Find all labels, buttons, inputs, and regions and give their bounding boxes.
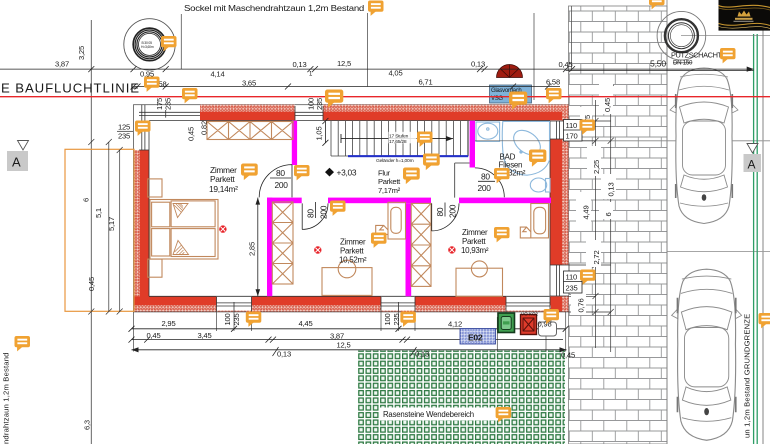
svg-text:3,45: 3,45: [198, 331, 212, 340]
door Zimmer2: [302, 203, 328, 229]
svg-text:235: 235: [315, 98, 324, 110]
svg-text:12,5: 12,5: [337, 59, 351, 68]
svg-text:125: 125: [118, 123, 130, 132]
dim 2,85 Zimmer1: [248, 198, 261, 297]
svg-text:ndrahtzaun 1,2m Bestand: ndrahtzaun 1,2m Bestand: [2, 352, 11, 444]
magenta wall Flur/Zimmer1 upper: [292, 121, 297, 165]
svg-text:A: A: [12, 155, 21, 170]
right wall window top (110/170): [550, 121, 569, 139]
right wall hatch band: [562, 105, 569, 121]
blue hatched box E02: [460, 329, 496, 345]
white patches behind right labels: [571, 83, 616, 315]
window tag 110/235: [564, 271, 583, 293]
desk + chair Zimmer3: [456, 261, 503, 296]
svg-text:80: 80: [276, 168, 285, 178]
svg-text:6,3: 6,3: [83, 420, 92, 430]
svg-text:235: 235: [566, 284, 578, 293]
bottom wall red band: [134, 296, 217, 305]
svg-text:200: 200: [448, 204, 458, 218]
svg-text:DN 150: DN 150: [673, 60, 693, 67]
svg-text:10,52m²: 10,52m²: [339, 255, 367, 264]
svg-text:80: 80: [481, 171, 490, 181]
handrail label: [375, 157, 419, 163]
top window entrance (wall opening): [295, 106, 323, 120]
red awning fan: [497, 65, 523, 78]
door Zimmer1: [259, 165, 292, 198]
svg-text:0,45: 0,45: [561, 351, 575, 360]
extension lines: [134, 312, 566, 352]
door BAD: [475, 168, 504, 197]
svg-text:0,45: 0,45: [559, 60, 573, 69]
svg-text:170: 170: [566, 132, 578, 141]
door label Zimmer1: [270, 168, 291, 190]
leader lines from notes: [180, 14, 182, 69]
svg-text:1,05: 1,05: [315, 127, 324, 141]
svg-text:200: 200: [478, 183, 492, 193]
glass canopy Glasvordach VSG: [490, 85, 532, 103]
bed blanket folds (hatched triangles): [173, 204, 189, 255]
svg-text:0,76: 0,76: [577, 299, 586, 313]
svg-text:Zimmer: Zimmer: [340, 237, 366, 246]
svg-text:Rasensteine Wendebereich: Rasensteine Wendebereich: [383, 410, 474, 419]
svg-text:0,13: 0,13: [293, 60, 307, 69]
right wall red band: [550, 139, 562, 265]
boundary grey line: [762, 0, 764, 444]
svg-text:4,45: 4,45: [299, 319, 313, 328]
left wall window: [139, 105, 149, 150]
boundary green double line: [753, 34, 755, 444]
small white shaft box: [539, 322, 557, 336]
brick paved area right: [569, 6, 668, 444]
survey circle PUTZSCHACHT: [657, 11, 706, 60]
svg-text:Parkett: Parkett: [340, 246, 364, 255]
stair walk line with arrow: [341, 134, 453, 143]
svg-text:0,13: 0,13: [607, 183, 616, 197]
top wall red band: [200, 112, 295, 121]
svg-text:5,1: 5,1: [94, 208, 103, 218]
svg-text:110: 110: [566, 121, 578, 130]
svg-text:+3,03: +3,03: [337, 167, 357, 177]
svg-text:4,49: 4,49: [582, 206, 591, 220]
svg-text:4,12: 4,12: [448, 320, 462, 329]
svg-text:6,58: 6,58: [546, 78, 560, 87]
washbasin counter: [476, 122, 500, 141]
svg-text:100: 100: [383, 313, 392, 325]
svg-text:Zimmer: Zimmer: [462, 228, 488, 237]
putzschacht leader line: [681, 35, 770, 37]
svg-text:4,05: 4,05: [389, 69, 403, 78]
car 2 (bottom parking spot): [672, 269, 742, 440]
double bed Zimmer1: [148, 179, 218, 277]
svg-text:110: 110: [566, 273, 578, 282]
svg-text:Parkett: Parkett: [210, 174, 235, 184]
horizontal site line at bath level: [550, 140, 770, 142]
level marker +3,03: [325, 168, 334, 177]
magenta wall Zimmer1/Zimmer2 lower: [267, 198, 272, 297]
dim row 2: [129, 337, 564, 343]
bottom window 3: [506, 297, 550, 312]
stair treads: [331, 121, 468, 156]
room label Zimmer 1: [209, 165, 238, 194]
bottom window 2: [381, 297, 415, 312]
svg-text:0,45: 0,45: [87, 277, 96, 291]
corner bathtub: [502, 122, 549, 176]
svg-text:80: 80: [306, 209, 316, 218]
rotated window tags top: [155, 98, 324, 141]
svg-text:3,87: 3,87: [330, 332, 344, 341]
svg-text:0,45: 0,45: [147, 331, 161, 340]
svg-text:235: 235: [164, 98, 173, 110]
svg-text:6: 6: [604, 212, 613, 216]
svg-text:5,50: 5,50: [650, 59, 666, 69]
svg-text:12,5: 12,5: [337, 341, 351, 350]
svg-text:3,87: 3,87: [55, 60, 69, 69]
room label BAD: [499, 152, 526, 177]
dim row B: [131, 84, 561, 90]
door label Zimmer2 (rotated): [306, 202, 329, 219]
room label Flur: [378, 169, 401, 195]
svg-text:10,93m²: 10,93m²: [461, 246, 489, 255]
svg-text:2,95: 2,95: [162, 319, 176, 328]
svg-text:6,71: 6,71: [419, 78, 433, 87]
svg-text:4,14: 4,14: [211, 70, 225, 79]
door label BAD: [478, 171, 496, 193]
left boundary vertical line: [90, 20, 92, 444]
site line across bath: [475, 140, 550, 142]
svg-text:100: 100: [223, 313, 232, 325]
svg-text:200: 200: [319, 205, 329, 219]
svg-text:200: 200: [275, 180, 289, 190]
svg-text:2,72: 2,72: [592, 251, 601, 265]
svg-text:17,65/28: 17,65/28: [389, 139, 407, 145]
right rotated labels: [577, 115, 616, 313]
right wall window bottom (110/235): [550, 265, 569, 296]
svg-text:7,17m²: 7,17m²: [378, 186, 401, 195]
red shaft box: [521, 315, 537, 335]
svg-text:235: 235: [118, 132, 130, 141]
dim row 1: [129, 326, 569, 332]
green shaft box: [498, 313, 515, 333]
svg-text:19,14m²: 19,14m²: [209, 184, 238, 194]
car 1 (top parking spot): [670, 68, 738, 224]
svg-text:0,45: 0,45: [187, 127, 196, 141]
section marker A right: [744, 144, 762, 173]
svg-text:0,82: 0,82: [200, 121, 209, 135]
room label Zimmer 3: [461, 228, 489, 255]
bottom wall hatch band: [134, 305, 552, 312]
left wall red band: [140, 150, 149, 312]
bed Zimmer2 (vertical): [376, 202, 406, 239]
svg-text:235: 235: [392, 313, 401, 325]
svg-text:80: 80: [435, 207, 445, 216]
svg-text:0,13: 0,13: [471, 60, 485, 69]
rotated left dims: [77, 46, 116, 430]
svg-text:H=3,60m: H=3,60m: [141, 45, 154, 49]
svg-text:3,65: 3,65: [242, 79, 256, 88]
building outer outline: [134, 105, 569, 312]
ceiling lamp dots: [219, 225, 455, 253]
svg-text:A: A: [748, 158, 756, 172]
survey tree circle top-left: [124, 19, 175, 70]
svg-text:E02: E02: [468, 333, 483, 343]
row B labels: [159, 78, 560, 89]
svg-text:PUTZSCHACHT: PUTZSCHACHT: [671, 51, 723, 60]
svg-text:6: 6: [82, 198, 91, 202]
magenta wall BAD left: [470, 121, 475, 168]
wardrobe Zimmer2: [272, 202, 293, 284]
lawn area label: [380, 408, 498, 421]
wardrobe top Zimmer1: [207, 122, 293, 140]
bottom window 1: [217, 297, 252, 312]
section marker A left: [7, 141, 29, 172]
door Zimmer3: [432, 203, 460, 231]
bed Zimmer3 (vertical): [520, 204, 548, 238]
window tag 110/170: [564, 120, 583, 142]
inner wall edge lines: [149, 121, 550, 297]
left wall hatch band: [134, 150, 141, 312]
door label Zimmer3 (rotated): [435, 203, 458, 219]
svg-text:58: 58: [159, 80, 167, 89]
parking spot divider: [667, 251, 770, 253]
svg-text:5,17: 5,17: [107, 217, 116, 231]
svg-text:VO KO2: VO KO2: [521, 311, 539, 316]
dim row A: [0, 66, 754, 72]
left dim lines: [88, 139, 122, 315]
magenta corridor wall horizontal: [267, 198, 302, 204]
svg-text:Parkett: Parkett: [462, 237, 486, 246]
svg-text:0,13: 0,13: [415, 350, 429, 359]
svg-text:Sockel mit Maschendrahtzaun 1,: Sockel mit Maschendrahtzaun 1,2m Bestand: [184, 3, 365, 13]
svg-text:0,45: 0,45: [603, 98, 612, 112]
dim line putzschacht row: [566, 70, 754, 72]
desk + chair Zimmer2: [322, 260, 372, 295]
svg-text:un 1,2m Bestand GRUNDGRENZE: un 1,2m Bestand GRUNDGRENZE: [743, 314, 752, 438]
old building outline (orange): [65, 149, 134, 311]
wardrobe Zimmer3: [411, 203, 431, 286]
stair label: [389, 132, 417, 144]
row A labels: [55, 59, 572, 79]
svg-text:2,25: 2,25: [592, 160, 601, 174]
magenta wall Zimmer2/Zimmer3: [406, 203, 412, 296]
svg-text:235: 235: [232, 313, 241, 325]
handrail (blue): [348, 155, 468, 157]
dim 1,05 at stair: [315, 118, 329, 146]
dim row 3: [132, 347, 567, 356]
toilet: [530, 178, 546, 192]
svg-text:2,85: 2,85: [248, 242, 257, 256]
window tag left 125/235: [117, 123, 133, 141]
svg-text:3,25: 3,25: [77, 46, 86, 60]
svg-text:E BAUFLUCHTLINIE: E BAUFLUCHTLINIE: [1, 81, 140, 96]
svg-text:17 Stufen: 17 Stufen: [389, 133, 409, 139]
top wall hatch band: [200, 105, 295, 112]
lawn grid area (Rasensteine): [357, 351, 565, 444]
parking lot edge line: [666, 0, 668, 444]
room label Zimmer 2: [339, 237, 367, 264]
niche next to BAD door: [455, 163, 470, 198]
svg-text:0,13: 0,13: [277, 350, 291, 359]
svg-text:Geländer h=1,00m: Geländer h=1,00m: [376, 158, 414, 164]
top window left (wall opening): [139, 110, 200, 118]
